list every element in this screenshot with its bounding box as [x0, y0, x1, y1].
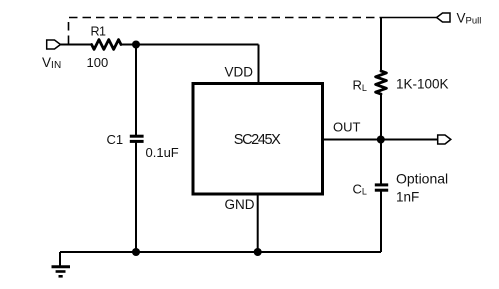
pin VPull	[437, 13, 450, 22]
svg-text:100: 100	[87, 55, 109, 70]
junction node GND at rail	[254, 248, 262, 256]
junction node C1 at rail	[132, 248, 140, 256]
wire C1 bottom to ground rail	[135, 143, 137, 253]
wire dashed pull-up net top	[69, 18, 382, 45]
junction node at R1 / C1	[132, 41, 140, 49]
wire VPull net to RL	[380, 18, 382, 72]
wire ground stem	[59, 252, 61, 266]
wire VDD drop	[258, 45, 260, 84]
svg-text:1K-100K: 1K-100K	[396, 77, 449, 92]
svg-text:OUT: OUT	[333, 120, 361, 135]
capacitor C1	[130, 136, 144, 141]
wire R1 to VDD corner	[121, 44, 259, 46]
wire VIN pin to R1	[61, 44, 93, 46]
svg-text:Optional: Optional	[396, 170, 448, 186]
wire RL to OUT node	[380, 94, 382, 140]
svg-text:R1: R1	[91, 24, 107, 38]
svg-text:1nF: 1nF	[396, 190, 419, 205]
svg-text:0.1uF: 0.1uF	[146, 145, 179, 160]
svg-text:VDD: VDD	[225, 65, 254, 80]
resistor R1	[92, 40, 121, 50]
wire junction to C1 top	[135, 45, 137, 136]
junction node at OUT	[377, 136, 385, 144]
wire CL to ground rail	[380, 191, 382, 252]
ground	[52, 267, 71, 277]
wire GND drop	[257, 195, 259, 253]
resistor RL	[376, 71, 387, 94]
pin VIN	[47, 40, 61, 49]
op-amp U1 SC245X box	[193, 84, 323, 195]
svg-text:SC245X: SC245X	[234, 132, 281, 148]
pin OUT	[438, 135, 451, 144]
svg-text:GND: GND	[225, 197, 255, 212]
wire ground rail	[60, 251, 381, 253]
wire OUT	[323, 139, 438, 141]
capacitor CL	[375, 185, 388, 190]
wire OUT node to CL	[380, 140, 382, 185]
svg-text:C1: C1	[107, 132, 124, 147]
wire top right to VPull pin	[381, 17, 437, 19]
